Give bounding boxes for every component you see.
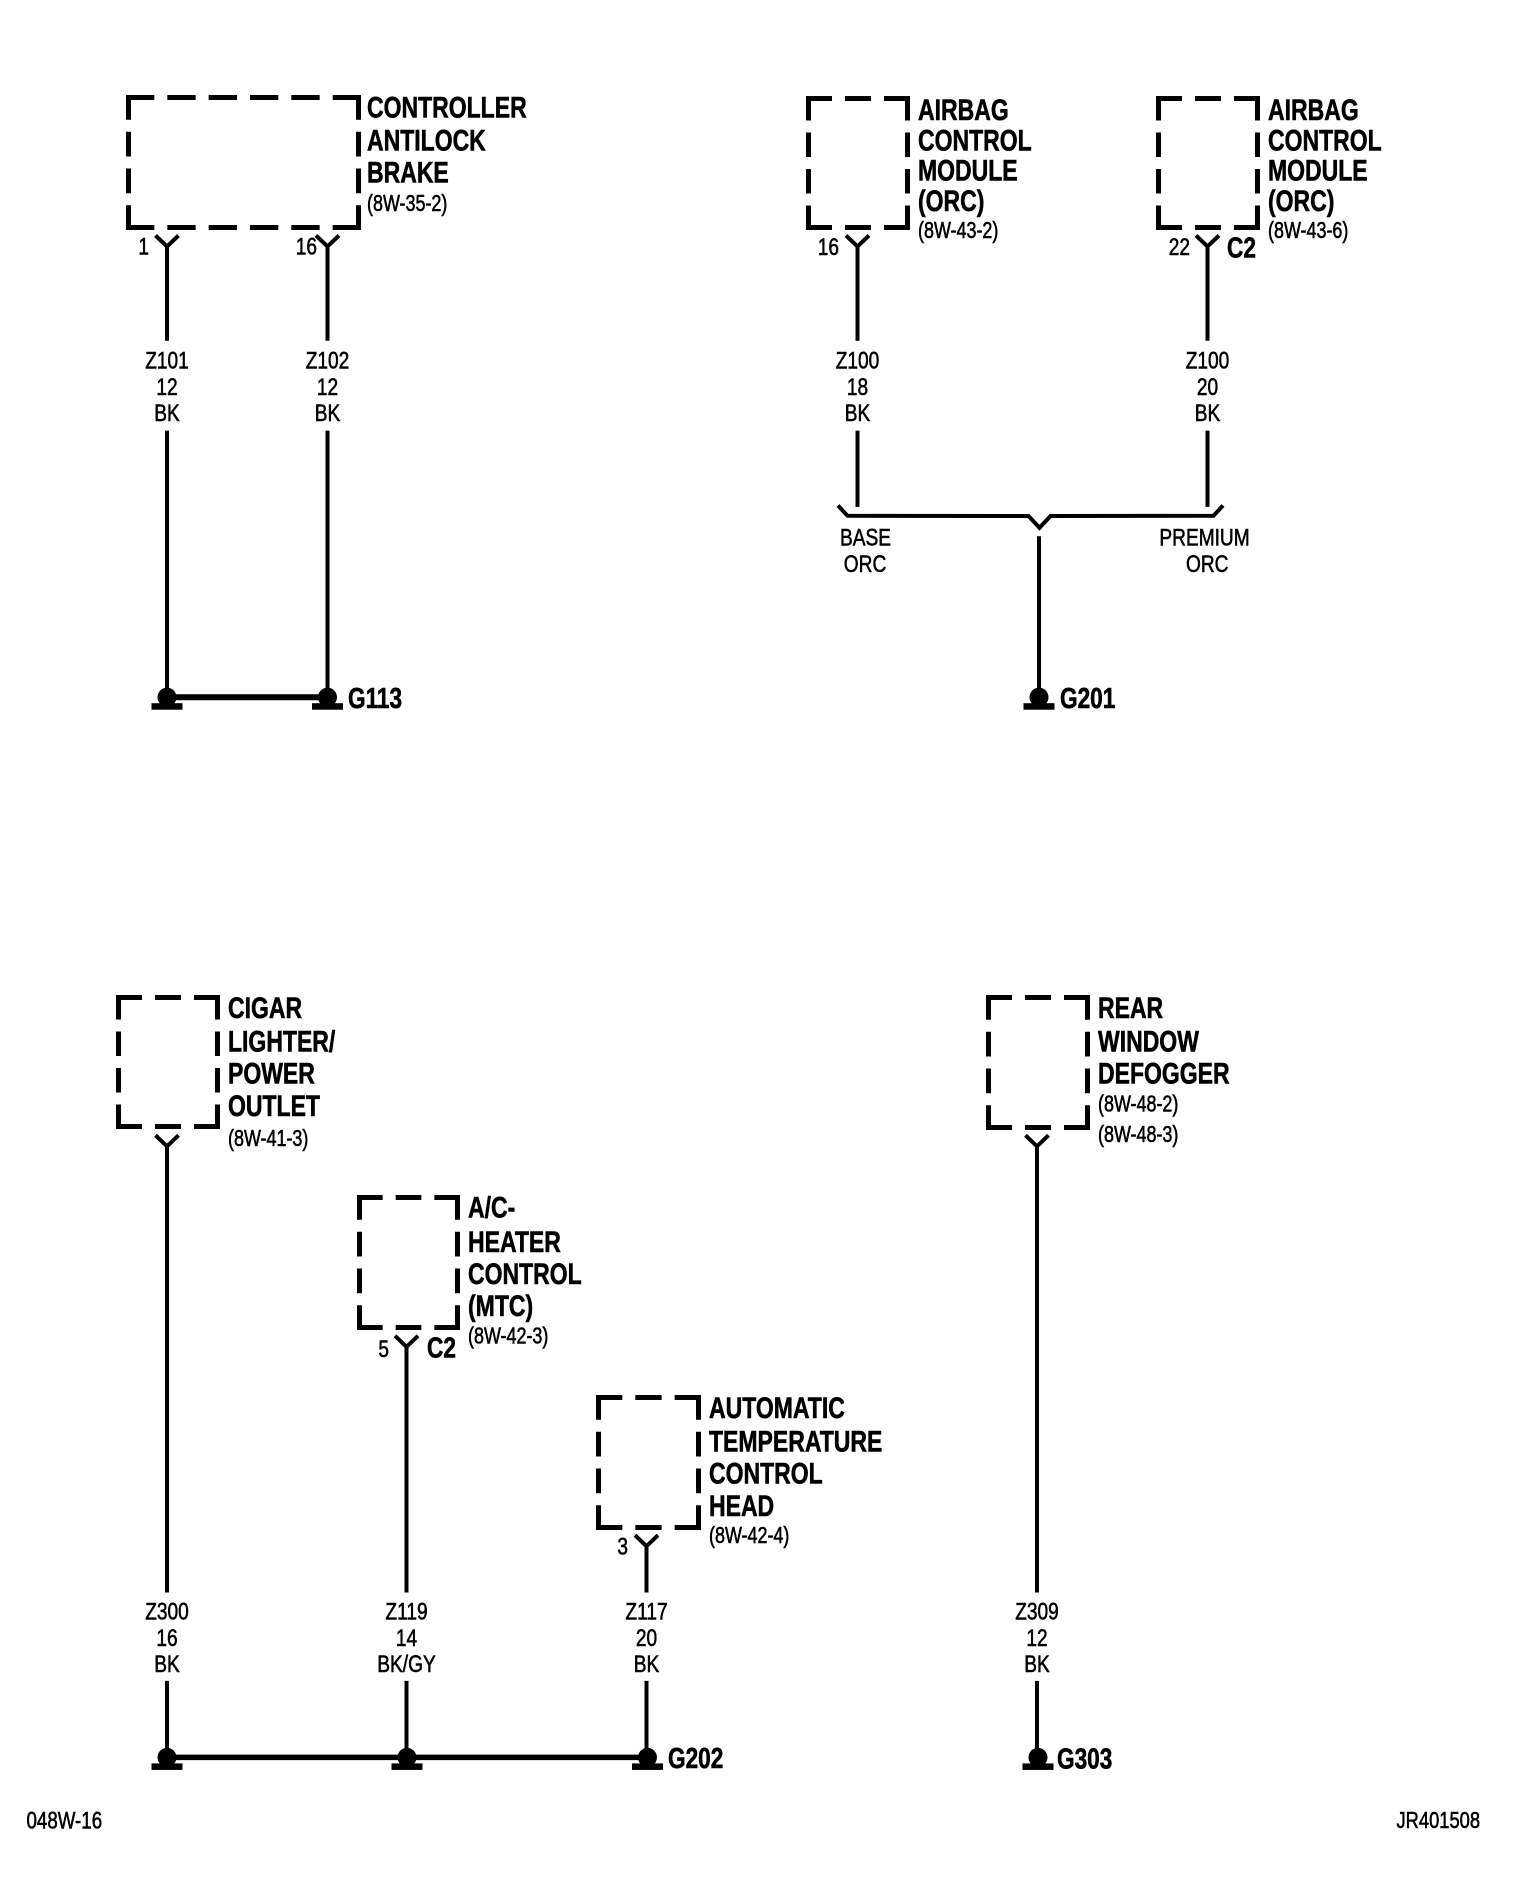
svg-text:BK: BK (315, 399, 341, 427)
svg-text:CONTROL: CONTROL (709, 1457, 823, 1490)
svg-text:048W-16: 048W-16 (27, 1807, 103, 1834)
ground symbol G303 (1029, 1748, 1048, 1767)
pin 5 connector C2 of A/C-heater control (378, 1331, 456, 1364)
wire Z102 upper segment (326, 245, 330, 341)
svg-text:Z100: Z100 (836, 346, 880, 374)
label AIRBAG CONTROL MODULE (ORC) (8W-43-2) (918, 93, 1032, 243)
svg-text:(8W-35-2): (8W-35-2) (367, 191, 447, 217)
module box AUTOMATIC TEMPERATURE CONTROL HEAD (596, 1395, 701, 1530)
svg-text:ORC: ORC (1186, 550, 1229, 578)
wire Z300 upper segment (165, 1145, 169, 1593)
wire Z309 lower segment (1035, 1681, 1039, 1749)
svg-text:POWER: POWER (228, 1057, 315, 1090)
svg-text:CONTROL: CONTROL (468, 1257, 582, 1290)
svg-text:Z102: Z102 (306, 346, 350, 374)
svg-text:16: 16 (156, 1623, 177, 1651)
ground symbol G113 (318, 688, 337, 707)
svg-text:G202: G202 (668, 1741, 723, 1774)
label CONTROLLER ANTILOCK BRAKE (8W-35-2) (367, 91, 527, 217)
ground symbol G202 (638, 1748, 657, 1767)
pin 1 of controller antilock brake (138, 232, 178, 260)
ground symbol at Z119 (398, 1748, 417, 1767)
svg-text:20: 20 (1197, 373, 1218, 401)
svg-text:Z309: Z309 (1015, 1597, 1059, 1625)
wire Z100 base upper segment (856, 245, 860, 341)
svg-text:TEMPERATURE: TEMPERATURE (709, 1425, 882, 1458)
svg-text:BRAKE: BRAKE (367, 156, 449, 189)
svg-text:AIRBAG: AIRBAG (918, 93, 1009, 126)
wire from brace to G201 (1037, 536, 1041, 689)
svg-text:WINDOW: WINDOW (1098, 1025, 1199, 1058)
svg-text:12: 12 (317, 373, 338, 401)
svg-text:BK: BK (634, 1650, 660, 1678)
svg-text:CONTROL: CONTROL (1268, 124, 1382, 157)
svg-text:(8W-41-3): (8W-41-3) (228, 1126, 308, 1152)
svg-text:18: 18 (847, 373, 868, 401)
wire label Z102 12 BK (306, 346, 350, 426)
svg-text:ANTILOCK: ANTILOCK (367, 124, 486, 157)
svg-text:CIGAR: CIGAR (228, 991, 302, 1024)
svg-text:(8W-42-4): (8W-42-4) (709, 1523, 789, 1549)
svg-text:ORC: ORC (844, 550, 887, 578)
svg-text:1: 1 (138, 232, 149, 260)
svg-text:(MTC): (MTC) (468, 1289, 533, 1322)
svg-text:BK: BK (154, 1650, 180, 1678)
svg-text:DEFOGGER: DEFOGGER (1098, 1057, 1230, 1090)
wire Z117 upper segment (645, 1545, 649, 1593)
svg-text:16: 16 (818, 233, 839, 261)
wire Z117 lower segment (645, 1681, 649, 1749)
wire Z100 premium lower segment (1206, 431, 1210, 507)
svg-text:BASE: BASE (840, 523, 891, 551)
svg-text:G201: G201 (1060, 681, 1115, 714)
label AUTOMATIC TEMPERATURE CONTROL HEAD (8W-42-4) (709, 1391, 882, 1548)
ground symbol G201 (1030, 688, 1049, 707)
label CIGAR LIGHTER/POWER OUTLET (8W-41-3) (228, 991, 336, 1151)
svg-text:(8W-42-3): (8W-42-3) (468, 1324, 548, 1350)
pin 22 connector C2 of premium ORC (1169, 231, 1256, 264)
svg-text:16: 16 (296, 232, 317, 260)
pin 16 of base ORC (818, 233, 869, 261)
svg-text:BK: BK (154, 399, 180, 427)
svg-text:BK/GY: BK/GY (377, 1650, 436, 1678)
connector arrow of cigar lighter (156, 1135, 179, 1146)
pin 3 of ATC head (617, 1532, 658, 1560)
svg-text:AUTOMATIC: AUTOMATIC (709, 1391, 845, 1424)
ground symbol at Z101 (158, 688, 177, 707)
svg-text:(8W-43-2): (8W-43-2) (918, 218, 998, 244)
module box CIGAR LIGHTER/POWER OUTLET (116, 995, 220, 1129)
brace joining base and premium ORC wires (838, 506, 1223, 528)
wire label Z100 18 BK (836, 346, 880, 426)
svg-text:12: 12 (156, 373, 177, 401)
svg-text:CONTROLLER: CONTROLLER (367, 91, 527, 124)
svg-text:5: 5 (378, 1335, 389, 1363)
wire Z119 upper segment (405, 1345, 409, 1593)
svg-text:3: 3 (617, 1532, 628, 1560)
svg-text:C2: C2 (427, 1331, 456, 1364)
module box AIRBAG CONTROL MODULE (ORC) base (806, 96, 910, 230)
svg-text:BK: BK (845, 399, 871, 427)
label AIRBAG CONTROL MODULE (ORC) (8W-43-6) (1268, 93, 1382, 243)
svg-text:Z117: Z117 (625, 1597, 667, 1625)
svg-text:MODULE: MODULE (918, 154, 1018, 187)
svg-text:BK: BK (1195, 399, 1221, 427)
svg-text:C2: C2 (1227, 231, 1256, 264)
svg-text:22: 22 (1169, 233, 1190, 261)
svg-text:G303: G303 (1057, 1742, 1112, 1775)
connector arrow of rear window defogger (1026, 1135, 1049, 1146)
svg-text:HEAD: HEAD (709, 1489, 774, 1522)
svg-text:REAR: REAR (1098, 991, 1163, 1024)
svg-text:HEATER: HEATER (468, 1225, 561, 1258)
svg-text:Z300: Z300 (145, 1597, 189, 1625)
svg-text:PREMIUM: PREMIUM (1159, 523, 1249, 551)
module box CONTROLLER ANTILOCK BRAKE (126, 95, 361, 230)
wire label Z117 20 BK (625, 1597, 667, 1678)
wire Z100 base lower segment (856, 431, 860, 507)
wire label Z101 12 BK (145, 346, 189, 426)
svg-text:Z119: Z119 (385, 1597, 427, 1625)
svg-text:JR401508: JR401508 (1397, 1808, 1481, 1834)
label A/C-HEATER CONTROL (MTC) (8W-42-3) (468, 1191, 582, 1349)
label BASE ORC (840, 523, 891, 577)
svg-text:(8W-48-2): (8W-48-2) (1098, 1092, 1178, 1118)
svg-text:(ORC): (ORC) (1268, 184, 1334, 217)
pin 16 of controller antilock brake (296, 232, 339, 260)
svg-text:BK: BK (1024, 1650, 1050, 1678)
svg-text:CONTROL: CONTROL (918, 124, 1032, 157)
svg-text:OUTLET: OUTLET (228, 1089, 320, 1122)
wire Z101 lower segment (165, 431, 169, 689)
wire Z102 lower segment (326, 431, 330, 689)
module box AIRBAG CONTROL MODULE (ORC) premium (1156, 96, 1260, 230)
wire label Z119 14 BK/GY (377, 1597, 436, 1678)
module box A/C-HEATER CONTROL (MTC) (357, 1195, 460, 1330)
svg-text:LIGHTER/: LIGHTER/ (228, 1025, 336, 1058)
wire Z100 premium upper segment (1206, 245, 1210, 341)
wire Z300 lower segment (165, 1681, 169, 1749)
wire label Z309 12 BK (1015, 1597, 1059, 1678)
svg-text:14: 14 (396, 1623, 417, 1651)
svg-text:Z101: Z101 (145, 346, 189, 374)
module box REAR WINDOW DEFOGGER (986, 995, 1090, 1130)
svg-text:A/C-: A/C- (468, 1191, 515, 1224)
svg-text:(8W-43-6): (8W-43-6) (1268, 218, 1348, 244)
svg-text:AIRBAG: AIRBAG (1268, 93, 1359, 126)
wire label Z300 16 BK (145, 1597, 189, 1678)
svg-text:G113: G113 (348, 681, 402, 714)
label PREMIUM ORC (1159, 523, 1249, 577)
svg-text:(8W-48-3): (8W-48-3) (1098, 1122, 1178, 1148)
svg-text:Z100: Z100 (1186, 346, 1230, 374)
svg-text:20: 20 (636, 1623, 657, 1651)
svg-text:12: 12 (1026, 1623, 1047, 1651)
wire label Z100 20 BK (1186, 346, 1230, 426)
wire Z119 lower segment (405, 1681, 409, 1749)
label REAR WINDOW DEFOGGER (8W-48-2) (8W-48-3) (1098, 991, 1230, 1147)
wire Z101 upper segment (165, 245, 169, 341)
svg-text:(ORC): (ORC) (918, 184, 984, 217)
ground bus wire to G113 (167, 694, 328, 700)
svg-text:MODULE: MODULE (1268, 154, 1368, 187)
ground symbol at Z300 (158, 1748, 177, 1767)
ground bus wire to G202 (167, 1755, 648, 1761)
wire Z309 upper segment (1035, 1145, 1039, 1593)
